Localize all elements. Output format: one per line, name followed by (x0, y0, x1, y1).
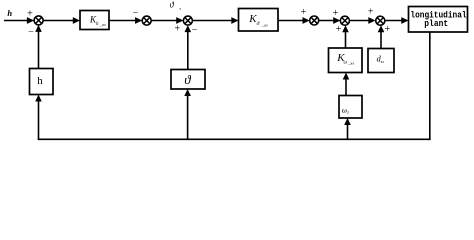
svg-text:h: h (7, 8, 12, 18)
svg-text:+: + (333, 8, 339, 19)
svg-text:+: + (336, 24, 342, 35)
svg-text:ω: ω (344, 61, 348, 66)
svg-text:ϑ: ϑ (257, 21, 260, 27)
svg-text:+: + (368, 6, 374, 17)
svg-text:_эл: _эл (261, 23, 268, 28)
svg-text:plant: plant (424, 18, 448, 29)
svg-text:h: h (37, 75, 43, 87)
svg-text:ϑ: ϑ (184, 72, 191, 87)
svg-text:эл: эл (381, 59, 385, 64)
svg-text:+: + (384, 24, 390, 35)
svg-text:+: + (174, 23, 180, 34)
svg-text:ω: ω (342, 105, 347, 114)
svg-text:−: − (133, 8, 139, 19)
svg-text:−: − (28, 27, 34, 38)
svg-text:z: z (346, 110, 349, 115)
svg-text:+: + (27, 9, 33, 20)
svg-text:_эл: _эл (99, 22, 106, 27)
svg-text:з: з (178, 6, 181, 11)
svg-text:−: − (192, 25, 198, 36)
svg-text:+: + (301, 7, 307, 18)
svg-text:_эл: _эл (347, 61, 354, 66)
